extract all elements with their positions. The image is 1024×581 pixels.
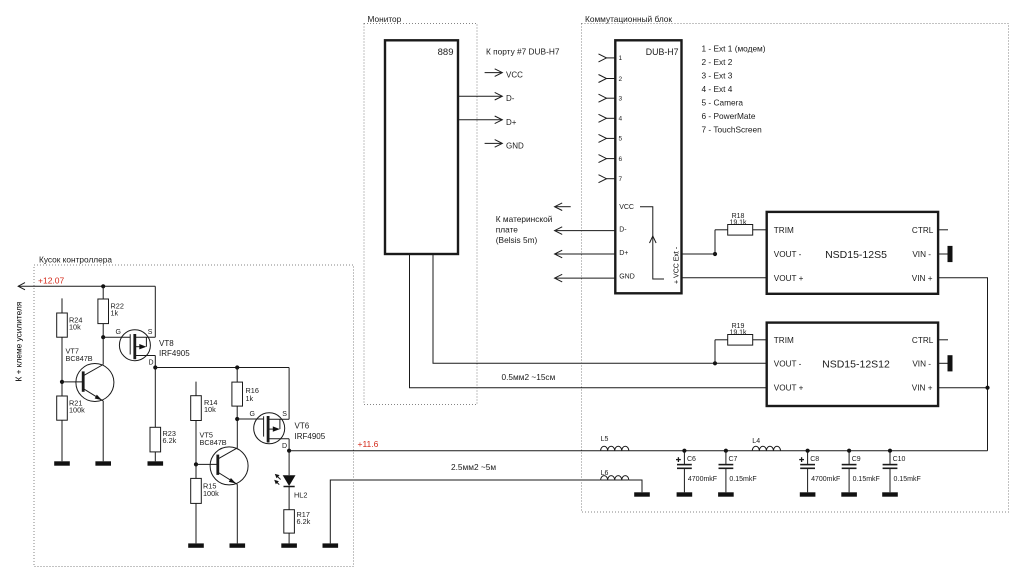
resistor R17 (288, 487, 290, 510)
svg-text:7: 7 (619, 176, 623, 183)
wire VT7 emitter to ground (102, 401, 104, 461)
wire +12V rail (18, 285, 155, 287)
ground (C10) (882, 492, 898, 496)
svg-text:G: G (116, 329, 121, 336)
svg-text:VIN -: VIN - (912, 250, 931, 259)
arrow GND (monitor) (485, 142, 502, 144)
module NSD15-12S5 box (767, 212, 938, 294)
svg-text:D+: D+ (619, 250, 628, 257)
resistor R14 (195, 382, 197, 396)
svg-text:100k: 100k (203, 489, 219, 498)
wire R21 to ground (61, 420, 63, 461)
wire VOUT- to TRIM tap (713, 252, 717, 256)
resistor R15 (195, 464, 197, 478)
wire D+ with arrow (monitor) (458, 119, 501, 121)
stub CTRL (NSD15-12S12) (938, 339, 948, 341)
svg-text:Монитор: Монитор (368, 14, 402, 24)
junction at C7 (724, 449, 728, 453)
svg-text:D: D (282, 443, 287, 450)
dashed frame: Монитор block (364, 24, 477, 405)
stub VIN- with supply bar (NSD15-12S5) (938, 253, 947, 255)
junction at VT7 base (60, 380, 64, 384)
svg-text:L6: L6 (601, 470, 609, 477)
junction VT6 drain / +11.6 node (287, 449, 291, 453)
svg-text:C6: C6 (687, 456, 696, 463)
svg-text:S: S (282, 411, 287, 418)
svg-text:1: 1 (619, 55, 623, 62)
wire VIN+ of NSD15-12S12 (938, 387, 987, 389)
svg-text:D: D (149, 360, 154, 367)
svg-text:0.15mkF: 0.15mkF (853, 476, 880, 483)
junction VT8 drain node (153, 365, 157, 369)
wire return rail to L6 (629, 480, 642, 492)
svg-text:VIN +: VIN + (912, 274, 933, 283)
svg-text:IRF4905: IRF4905 (295, 432, 326, 441)
svg-text:1k: 1k (111, 309, 119, 318)
polarity + (C6) (676, 459, 681, 461)
resistor R24 (61, 298, 63, 313)
svg-text:BC847B: BC847B (200, 438, 227, 447)
svg-text:VOUT +: VOUT + (774, 384, 804, 393)
svg-text:1k: 1k (246, 394, 254, 403)
svg-text:100k: 100k (69, 405, 85, 414)
ground (L6 return) (634, 492, 650, 496)
svg-text:7 - TouchScreen: 7 - TouchScreen (702, 125, 763, 135)
svg-text:VOUT -: VOUT - (774, 359, 802, 368)
svg-text:6.2k: 6.2k (297, 517, 311, 526)
resistor R19 19.1k (728, 335, 753, 346)
junction at C9 (847, 449, 851, 453)
svg-text:L5: L5 (601, 436, 609, 443)
inductor L6 (601, 476, 629, 480)
connector pin 4 (DUB-H7) (607, 117, 616, 119)
svg-text:1 - Ext 1 (модем): 1 - Ext 1 (модем) (702, 43, 766, 53)
svg-text:+12.07: +12.07 (38, 276, 65, 286)
junction VIN+ column (985, 386, 989, 390)
inductor L4 (752, 446, 780, 450)
wire monitor 12V+ to NSD15-12S12 VOUT+ (410, 254, 767, 388)
wire D- with arrow (monitor) (458, 95, 501, 97)
junction VT5 base node (194, 462, 198, 466)
svg-text:G: G (250, 411, 255, 418)
connector pin 5 (DUB-H7) (607, 137, 616, 139)
ground (R17) (281, 543, 297, 547)
svg-text:3 - Ext 3: 3 - Ext 3 (702, 70, 733, 80)
capacitor C6 4700mkF (677, 451, 692, 493)
svg-text:0.15mkF: 0.15mkF (729, 476, 756, 483)
svg-text:5 - Camera: 5 - Camera (702, 98, 744, 108)
svg-text:C8: C8 (810, 456, 819, 463)
svg-text:2 - Ext 2: 2 - Ext 2 (702, 57, 733, 67)
svg-text:C10: C10 (893, 456, 906, 463)
junction at C8 (806, 449, 810, 453)
svg-text:К порту #7 DUB-H7: К порту #7 DUB-H7 (486, 47, 560, 57)
wire gate of VT8 (103, 336, 130, 338)
svg-text:VCC: VCC (506, 71, 523, 80)
svg-text:3: 3 (619, 96, 623, 103)
resistor R22 (102, 286, 104, 299)
svg-text:0.15mkF: 0.15mkF (894, 476, 921, 483)
arrow VCC (monitor) (485, 72, 502, 74)
arrow VCC to motherboard (556, 206, 571, 208)
svg-text:L4: L4 (752, 438, 760, 445)
wire VT6 D down (288, 439, 290, 451)
wire VT8 S to +12V rail (154, 286, 156, 337)
wire +11.6 rail (289, 450, 600, 452)
svg-text:VOUT +: VOUT + (774, 274, 804, 283)
resistor R18 19.1k (728, 225, 753, 236)
stub CTRL (NSD15-12S5) (938, 229, 948, 231)
resistor R23 (154, 368, 156, 428)
svg-text:NSD15-12S5: NSD15-12S5 (825, 249, 887, 261)
svg-text:GND: GND (619, 274, 635, 281)
ground (R21) (54, 461, 70, 465)
transistor VT8 IRF4905 P-MOSFET (119, 330, 155, 361)
svg-text:IRF4905: IRF4905 (159, 349, 190, 358)
svg-text:Кусок контроллера: Кусок контроллера (39, 255, 112, 265)
wire DUB-H7 Ext+ to NSD15-12S5 VOUT+ (682, 277, 767, 279)
svg-text:VIN +: VIN + (912, 384, 933, 393)
wire DUB-H7 Ext- to NSD15-12S5 VOUT- (682, 253, 716, 255)
svg-text:NSD15-12S12: NSD15-12S12 (822, 359, 890, 371)
svg-text:VIN -: VIN - (912, 359, 931, 368)
node +12.07 arrow to amplifier terminal (18, 283, 25, 290)
transistor VT7 BC847B NPN (62, 364, 114, 402)
module NSD15-12S12 box (767, 323, 938, 406)
svg-text:D-: D- (506, 94, 515, 103)
wire D- to motherboard (556, 230, 615, 232)
wire VT5 emitter to ground (236, 484, 238, 543)
svg-text:VOUT -: VOUT - (774, 250, 802, 259)
svg-text:10k: 10k (204, 405, 216, 414)
svg-text:4700mkF: 4700mkF (811, 476, 840, 483)
svg-text:CTRL: CTRL (912, 226, 934, 235)
ground (C6) (677, 492, 693, 496)
internal VCC link with up arrow (DUB-H7) (640, 207, 664, 279)
junction R16 bottom / VT6 gate (235, 417, 239, 421)
module NSD15-12S12 labels (774, 336, 934, 393)
capacitor C7 0.15mkF (719, 451, 734, 493)
resistor R16 (235, 365, 239, 369)
wire VT5 collector up (236, 419, 238, 448)
svg-text:TRIM: TRIM (774, 336, 794, 345)
svg-text:+ VCC Ext -: + VCC Ext - (674, 246, 681, 284)
module NSD15-12S5 labels (774, 226, 934, 283)
ground (R15) (188, 543, 204, 547)
svg-text:S: S (148, 329, 153, 336)
hub DUB-H7 box (615, 40, 681, 293)
ground (R23) (148, 461, 164, 465)
wire VIN+ of NSD15-12S5 to supply column (938, 278, 987, 451)
wire R15 to ground (195, 503, 197, 543)
junction at C10 (888, 449, 892, 453)
wire R17 to ground (288, 533, 290, 543)
wire monitor 12V- to NSD15-12S12 VOUT- (433, 254, 767, 363)
svg-text:GND: GND (506, 141, 524, 150)
junction on +12V rail at R22 (101, 284, 105, 288)
svg-text:D-: D- (619, 227, 627, 234)
svg-text:плате: плате (496, 224, 518, 234)
capacitor C8 4700mkF (800, 451, 815, 493)
svg-text:(Belsis 5m): (Belsis 5m) (496, 235, 538, 245)
connector pin 6 (DUB-H7) (607, 158, 616, 160)
ground (VT7 emitter) (95, 461, 111, 465)
svg-text:19.1k: 19.1k (729, 329, 747, 336)
wire R14 to VT5 base (195, 421, 197, 465)
svg-text:D+: D+ (506, 118, 517, 127)
stub VIN- with supply bar (NSD15-12S12) (938, 362, 947, 364)
connector pin 2 (DUB-H7) (607, 78, 616, 80)
svg-text:4: 4 (619, 116, 623, 123)
wire VT8 D down (154, 356, 156, 368)
ground (C8) (800, 492, 816, 496)
legend list Ext ports (702, 43, 766, 134)
svg-text:CTRL: CTRL (912, 336, 934, 345)
svg-text:0.5мм2 ~15см: 0.5мм2 ~15см (502, 372, 556, 382)
svg-text:К + клеме усилителя: К + клеме усилителя (14, 302, 24, 382)
monitor body box (385, 40, 458, 254)
connector pin 7 (DUB-H7) (607, 178, 616, 180)
wire R24 to base node (61, 337, 63, 396)
svg-text:VCC: VCC (619, 204, 634, 211)
svg-text:DUB-H7: DUB-H7 (646, 47, 679, 57)
svg-text:C9: C9 (852, 456, 861, 463)
svg-text:BC847B: BC847B (66, 354, 93, 363)
wire VOUT- to TRIM tap (713, 361, 717, 365)
svg-text:+11.6: +11.6 (358, 439, 379, 449)
svg-text:6.2k: 6.2k (163, 436, 177, 445)
svg-text:Коммутационный блок: Коммутационный блок (585, 14, 672, 24)
wire VT7 collector up (102, 337, 104, 364)
connector pin 1 (DUB-H7) (607, 57, 616, 59)
ground (VT5 emitter) (230, 543, 246, 547)
inductor L5 (601, 446, 629, 450)
svg-text:К материнской: К материнской (496, 214, 553, 224)
wire gate of VT6 (237, 418, 263, 420)
svg-text:HL2: HL2 (294, 491, 307, 500)
ground (return wire) (323, 543, 339, 547)
wire VT6 S to drain rail (288, 368, 290, 420)
svg-text:VT6: VT6 (295, 422, 310, 431)
svg-text:4700mkF: 4700mkF (688, 476, 717, 483)
resistor R21 (57, 396, 68, 420)
dashed frame: Коммутационный блок (582, 24, 1009, 513)
svg-text:4 - Ext 4: 4 - Ext 4 (702, 84, 733, 94)
svg-text:6: 6 (619, 156, 623, 163)
connector pin 3 (DUB-H7) (607, 97, 616, 99)
LED HL2 (274, 451, 295, 487)
svg-text:6 - PowerMate: 6 - PowerMate (702, 111, 756, 121)
wire D+ to motherboard (556, 253, 615, 255)
svg-text:19.1k: 19.1k (729, 219, 747, 226)
wire return line to L6 (330, 480, 600, 543)
svg-text:5: 5 (619, 136, 623, 143)
ground (C9) (841, 492, 857, 496)
wire GND to motherboard (556, 277, 615, 279)
svg-text:2.5мм2 ~5м: 2.5мм2 ~5м (451, 462, 496, 472)
wire drain rail to VT6 branch (155, 367, 289, 369)
junction at VT8 gate / R22 bottom (101, 335, 105, 339)
svg-text:10k: 10k (69, 323, 81, 332)
svg-text:2: 2 (619, 76, 623, 83)
capacitor C10 0.15mkF (883, 451, 898, 493)
ground (C7) (718, 492, 734, 496)
dashed frame: Кусок контроллера block (34, 265, 354, 567)
transistor VT6 IRF4905 P-MOSFET (254, 413, 289, 444)
transistor VT5 BC847B NPN (196, 447, 248, 485)
capacitor C9 0.15mkF (842, 451, 857, 493)
svg-text:TRIM: TRIM (774, 226, 794, 235)
svg-text:889: 889 (438, 47, 454, 58)
svg-text:C7: C7 (729, 456, 738, 463)
svg-text:VT8: VT8 (159, 339, 174, 348)
polarity + (C8) (799, 459, 804, 461)
junction at C6 (682, 449, 686, 453)
